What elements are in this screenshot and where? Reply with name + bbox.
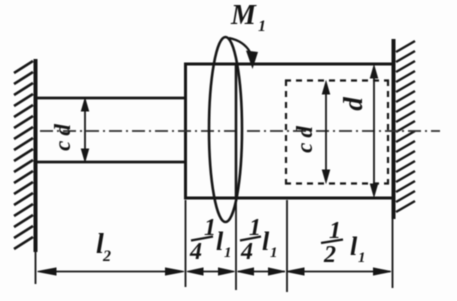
svg-text:1: 1 xyxy=(258,18,266,35)
dimension line half l1 xyxy=(287,268,392,275)
dimension line l2 xyxy=(38,268,185,275)
label 1/4 l1 first xyxy=(189,215,232,265)
torque arrowhead xyxy=(246,51,258,70)
svg-text:1: 1 xyxy=(270,245,278,261)
svg-text:1: 1 xyxy=(224,245,232,261)
dimension cd small shaft xyxy=(81,99,88,162)
left wall hatching xyxy=(14,61,33,249)
label 1/2 l1 xyxy=(321,218,366,268)
svg-text:l: l xyxy=(262,227,270,256)
torque ellipse M1 xyxy=(209,37,242,222)
svg-text:2: 2 xyxy=(323,242,336,268)
svg-text:1: 1 xyxy=(358,250,366,266)
shaft large section outline xyxy=(184,63,393,199)
dimension cd bore xyxy=(322,82,329,183)
dimension line quarter l1 first xyxy=(187,268,235,275)
left wall xyxy=(34,59,38,252)
bore dashed rectangle xyxy=(285,80,389,184)
dimension line quarter l1 second xyxy=(238,268,286,275)
right wall xyxy=(392,39,396,219)
svg-text:l: l xyxy=(216,227,224,256)
svg-text:l: l xyxy=(350,232,358,261)
shaft small section outline xyxy=(35,98,187,162)
extension lines bottom xyxy=(36,198,393,292)
svg-text:cd: cd xyxy=(50,119,75,151)
torque section line xyxy=(235,64,238,198)
svg-text:d: d xyxy=(338,97,368,111)
svg-text:4: 4 xyxy=(240,239,253,265)
svg-text:2: 2 xyxy=(102,248,111,265)
label 1/4 l1 second xyxy=(240,215,278,265)
dimension d large section xyxy=(370,66,377,197)
right wall hatching xyxy=(396,41,415,212)
svg-text:cd: cd xyxy=(292,121,317,153)
centerline xyxy=(40,130,440,132)
svg-text:M: M xyxy=(230,0,257,31)
torque arrow tail xyxy=(229,38,250,52)
svg-text:4: 4 xyxy=(189,239,202,265)
